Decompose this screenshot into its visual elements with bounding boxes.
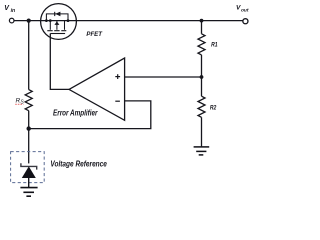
node junction dot R1 R2 midpoint [200, 75, 204, 79]
svg-text:out: out [241, 8, 249, 14]
svg-text:in: in [11, 8, 16, 14]
transistor PFET bulk stub [56, 21, 58, 30]
svg-text:R2: R2 [210, 105, 217, 112]
wire: R1 bottom to midpoint [201, 55, 203, 96]
node junction dot bypass left [45, 19, 48, 22]
ground left [20, 188, 37, 197]
terminal Vin [9, 18, 14, 23]
resistor R2 [198, 96, 205, 117]
resistor R1 [198, 34, 205, 55]
node junction dot source [49, 19, 52, 22]
transistor PFET body-diode top line [46, 14, 68, 21]
svg-text:Error Amplifier: Error Amplifier [53, 109, 98, 118]
diode D1 body-diode arrow [55, 12, 60, 17]
wire: R2 bottom to ground [201, 117, 203, 146]
diode D1 body-diode cathode bar [54, 12, 56, 16]
svg-text:V: V [4, 5, 10, 12]
wire: Rs bottom to voltage reference [28, 111, 30, 164]
op-amp minus sign [115, 100, 120, 102]
wire: feedback bottom run to inverting input [29, 101, 151, 129]
voltage reference dashed box [11, 152, 45, 183]
transistor PFET body circle [41, 4, 77, 40]
resistor RS [25, 90, 32, 111]
wire: op-amp output to PFET gate [50, 34, 69, 90]
transistor PFET drain stub [64, 21, 66, 30]
wire: plus input to R1/R2 midpoint [125, 76, 202, 78]
op-amp plus sign [115, 74, 120, 101]
node junction dot Vout rail [200, 19, 204, 23]
diode Z1 zener arrow [22, 166, 36, 178]
svg-text:R1: R1 [211, 41, 218, 48]
node junction dot feedback [27, 126, 31, 130]
wire: top rail to R1 [201, 21, 203, 34]
label RS red underline [15, 103, 23, 105]
terminal Vout [243, 19, 248, 24]
ground right [194, 147, 210, 155]
transistor PFET channel dashes [47, 30, 52, 32]
svg-text:Voltage Reference: Voltage Reference [50, 160, 107, 169]
node junction dot bypass right [67, 19, 70, 22]
wire: left vertical from node A down to Rs [28, 21, 30, 90]
wire: top rail Vin to Vout [14, 20, 242, 22]
node A junction dot Vin [27, 19, 31, 23]
wire: zener to ground [28, 178, 30, 187]
op-amp U1 error amplifier [69, 58, 125, 120]
transistor PFET gate bar [50, 33, 65, 35]
diode Z1 zener cathode bar [21, 163, 37, 169]
svg-text:PFET: PFET [86, 31, 103, 38]
transistor PFET bulk arrow [54, 21, 59, 25]
transistor PFET source stub [49, 21, 51, 30]
